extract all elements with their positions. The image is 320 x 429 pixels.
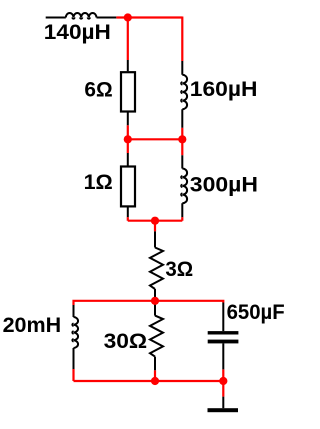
svg-text:140µH: 140µH — [44, 21, 111, 44]
svg-text:160µH: 160µH — [190, 78, 258, 101]
svg-text:6Ω: 6Ω — [84, 78, 112, 101]
svg-text:20mH: 20mH — [3, 314, 62, 337]
svg-text:650µF: 650µF — [227, 301, 285, 324]
svg-text:3Ω: 3Ω — [165, 258, 193, 281]
svg-text:30Ω: 30Ω — [104, 330, 148, 353]
svg-text:1Ω: 1Ω — [84, 171, 113, 194]
svg-text:300µH: 300µH — [190, 173, 258, 196]
